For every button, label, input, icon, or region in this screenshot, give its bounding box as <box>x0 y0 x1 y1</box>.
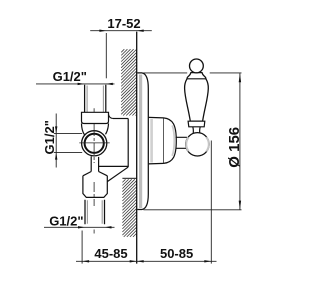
bottom dim line <box>76 260 217 262</box>
collar-to-housing fillet <box>109 114 114 118</box>
housing front vertical <box>127 119 129 168</box>
port circle inner thread <box>85 134 104 153</box>
housing top edge <box>113 118 128 120</box>
bottom dim arrows <box>82 260 89 262</box>
svg-text:G1/2": G1/2" <box>53 69 87 84</box>
dim line G1/2 left <box>55 114 57 168</box>
block <box>83 176 107 198</box>
plate (escutcheon edge-on) <box>137 73 148 210</box>
body trunk sides <box>82 124 109 136</box>
centerline (dash-dot axis) <box>93 108 95 112</box>
wall hatch upper <box>121 49 136 115</box>
svg-text:45-85: 45-85 <box>94 246 127 261</box>
plate shading <box>139 75 142 209</box>
bottom dims extension lines <box>81 231 83 264</box>
top collar <box>82 112 109 123</box>
hourglass neck <box>193 127 200 133</box>
dim 17-52 line <box>90 30 152 32</box>
port circle outer <box>82 131 107 156</box>
top pipe thread lines <box>87 86 103 113</box>
dome cap on plate <box>149 117 164 163</box>
diameter 156 extension bottom <box>144 209 242 211</box>
lever flange edge <box>187 78 206 80</box>
svg-text:50-85: 50-85 <box>160 246 193 261</box>
handle stem <box>176 137 188 148</box>
dim 17-52 arrows <box>99 30 106 32</box>
bottom pipe <box>85 200 105 225</box>
hub ball <box>186 133 209 156</box>
housing bottom edge <box>99 165 129 167</box>
dim line G1/2 bottom <box>44 226 115 228</box>
handle lever body (baluster) <box>185 73 209 122</box>
svg-text:Ø 156: Ø 156 <box>226 127 243 168</box>
diameter 156 dim line <box>239 73 241 209</box>
wall face line <box>136 32 138 264</box>
flare <box>83 172 107 176</box>
dim line G1/2 top <box>36 83 115 85</box>
lever bottom collar <box>188 121 205 127</box>
G1/2 left extension lines <box>54 132 82 134</box>
top pipe <box>85 85 106 113</box>
neck below circle <box>91 156 98 171</box>
dim 17-52 left extension <box>105 33 107 78</box>
outlet diagonal <box>107 167 128 181</box>
svg-text:G1/2": G1/2" <box>42 120 57 154</box>
bottom pipe thread lines <box>87 200 102 224</box>
lever ball top <box>190 59 204 73</box>
dome front <box>164 118 177 163</box>
port crosshair horizontal <box>79 142 109 144</box>
wall lower boundary line <box>122 177 136 179</box>
svg-text:17-52: 17-52 <box>107 16 140 31</box>
dome cap shading <box>150 119 153 163</box>
wall hatch lower <box>122 179 136 237</box>
diameter 156 extension top <box>143 72 188 74</box>
